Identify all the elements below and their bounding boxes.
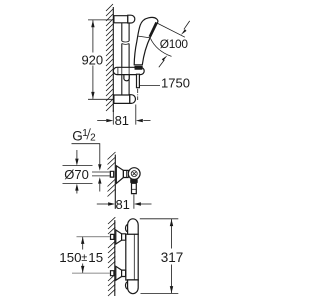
dim Ø100 arrow upper	[184, 21, 190, 29]
upper inlet: hex nut	[111, 234, 114, 239]
dim 920 extension line bottom	[88, 98, 114, 100]
holder clamp on rail	[122, 67, 129, 74]
connector cylinder	[123, 170, 128, 177]
holder clamp bump below rail	[124, 73, 129, 81]
hex nut	[110, 171, 113, 177]
supply pipe	[92, 172, 110, 176]
dim 81 (top fig) arrows	[97, 120, 106, 122]
body inner line	[133, 234, 135, 280]
top knob lever bulge	[126, 225, 131, 232]
mixer body	[126, 234, 138, 280]
dim 920 line + arrows	[92, 20, 94, 99]
dim Ø70 ext lines	[63, 166, 93, 184]
bottom knob	[128, 280, 139, 294]
dim Ø70 arrows (outside)	[76, 150, 78, 194]
upper inlet: escutcheon cone	[116, 230, 122, 244]
svg-text:920: 920	[81, 52, 103, 67]
G 1/2 leader underline + down arrow	[72, 144, 100, 165]
top wall bracket	[114, 16, 128, 23]
handle grip dark band	[134, 66, 142, 70]
middle wall line	[114, 155, 116, 196]
outlet nut (dark)	[130, 179, 138, 183]
svg-text:2: 2	[90, 132, 96, 143]
svg-text:15: 15	[88, 250, 103, 265]
elbow ball	[128, 168, 140, 180]
wall hatch (top figure)	[106, 4, 113, 111]
dim 317 line + arrows	[171, 219, 173, 293]
svg-text:317: 317	[161, 250, 184, 265]
rail	[122, 23, 129, 95]
dim 150 line + arrows	[82, 237, 84, 273]
dim 81 (middle/bottom shared) ext lines	[114, 196, 116, 209]
elbow screw	[131, 171, 137, 177]
upper inlet: connector	[122, 234, 126, 240]
svg-text:81: 81	[115, 113, 129, 128]
top knob	[128, 219, 139, 234]
bottom knob lever bulge	[126, 282, 131, 289]
bottom wall line	[114, 220, 116, 296]
shower head neck line	[138, 36, 150, 38]
dim Ø100 arrow lower	[159, 60, 165, 67]
escutcheon cone	[116, 166, 123, 184]
bottom wall hatch	[108, 217, 115, 296]
svg-text:1750: 1750	[161, 76, 190, 91]
hand shower head	[134, 17, 158, 64]
wall line (top figure)	[112, 7, 114, 112]
middle wall hatch	[108, 152, 116, 197]
dim 1750 leader	[140, 85, 160, 87]
bottom wall bracket	[114, 95, 130, 103]
svg-text:±: ±	[81, 252, 87, 264]
svg-text:81: 81	[115, 197, 129, 212]
svg-text:Ø100: Ø100	[160, 37, 189, 51]
rail joint	[122, 41, 129, 44]
dim 81 (top fig) ext lines	[113, 105, 136, 125]
hose connector stem	[137, 74, 140, 88]
outlet nipple	[132, 183, 137, 193]
dim Ø100 ext line upper	[156, 23, 185, 38]
hose center dash-dot line	[137, 89, 139, 100]
dim Ø100 ext line lower	[151, 39, 172, 57]
svg-text:Ø70: Ø70	[64, 167, 89, 182]
svg-text:150: 150	[59, 250, 81, 265]
dim 81 (middle/bottom shared) arrows	[97, 203, 108, 205]
G 1/2 lower arrow (up)	[99, 184, 101, 192]
holder left cap line	[117, 67, 119, 74]
lower inlet: hex nut	[111, 271, 114, 276]
dim 150 ext line top	[72, 237, 110, 274]
dim 920 extension line top	[88, 19, 113, 21]
shower head face (dark)	[149, 22, 158, 38]
dim 317 ext lines	[140, 219, 179, 294]
lower inlet: connector	[122, 270, 126, 276]
lower inlet: escutcheon cone	[116, 266, 122, 280]
holder slider bar	[113, 67, 144, 74]
